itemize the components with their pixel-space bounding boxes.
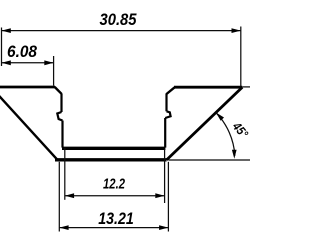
arrow 13.21 left [59, 225, 68, 230]
extension line 12.2 left (x=64.8) [64, 148, 66, 200]
extension line 13.21 left (x=59.3) [58, 162, 60, 232]
channel left wall lower face [61, 121, 63, 148]
channel right wall notch [165, 111, 170, 118]
bottom edge extension for angle dimension [169, 159, 251, 161]
dimension line 13.21 [59, 227, 168, 229]
channel bottom [62, 147, 165, 150]
channel left wall upper face [60, 93, 62, 112]
svg-text:13.21: 13.21 [98, 210, 134, 228]
channel right wall upper face [165, 93, 167, 111]
arrow 6.08 left [2, 60, 11, 65]
arrow 45 on bottom extension [232, 150, 237, 159]
extension line top right (x=240.8) [240, 27, 242, 87]
top edge extension for angle reference [243, 86, 251, 88]
profile left 45-degree chamfer [0, 95, 58, 161]
extension line 6.08 right (x=50.8) [53, 56, 55, 86]
arrow 30.85 left [2, 28, 11, 33]
angle dimension arc 45 [216, 112, 235, 155]
channel left wall notch [57, 112, 62, 121]
profile right 45-degree chamfer [167, 87, 243, 160]
profile left rim step [55, 87, 62, 94]
profile bottom edge [55, 158, 167, 161]
extension line 12.2 right (x=164.6) [164, 149, 166, 203]
dimension line 6.08 [2, 62, 54, 64]
dimension line 30.85 [2, 30, 241, 32]
arrow 30.85 right [232, 28, 241, 33]
profile right rim step [167, 87, 175, 94]
profile top-right edge [174, 86, 242, 89]
arrow 12.2 left [65, 193, 74, 198]
svg-text:6.08: 6.08 [7, 42, 37, 61]
arrow 12.2 right [155, 193, 164, 198]
arrow 45 on chamfer [216, 112, 224, 120]
channel right wall lower face [164, 118, 166, 148]
extension line 13.21 right (x=168.4) [167, 162, 169, 232]
svg-text:30.85: 30.85 [100, 10, 137, 29]
arrow 13.21 right [159, 225, 168, 230]
dimension line 12.2 [65, 195, 165, 197]
svg-text:12.2: 12.2 [103, 176, 125, 193]
extension line left (x=1.5) [1, 28, 3, 67]
profile top-left edge [0, 86, 55, 89]
arrow 6.08 right [44, 60, 53, 65]
